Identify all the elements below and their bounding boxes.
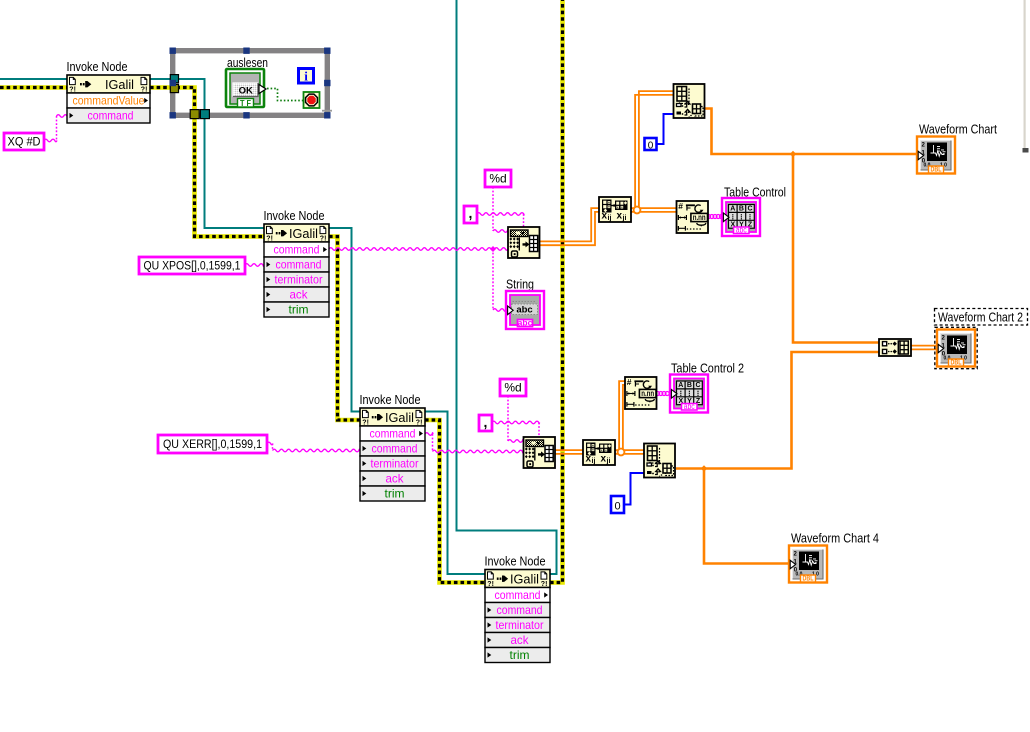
svg-text:0: 0 (614, 501, 620, 513)
Waveform Chart 2 indicator icon (selected) (935, 309, 1028, 326)
svg-text:trim: trim (510, 648, 530, 662)
svg-text:ack: ack (386, 472, 405, 486)
wire: orange 1D array Index Array 2 to Build Array input 2 (676, 352, 879, 469)
svg-text:IGalil: IGalil (105, 78, 134, 92)
svg-text:DBL: DBL (951, 360, 963, 367)
wire: pink %d format string 1 down into Spreadsheet String To Array 1 (492, 187, 494, 231)
svg-text:Waveform Chart 2: Waveform Chart 2 (938, 310, 1023, 325)
string constant QU XERR[],0,1599,1 (158, 435, 267, 453)
Number To Fractional String 1 (677, 201, 709, 233)
Build Array (879, 339, 911, 356)
svg-text:command: command (274, 243, 320, 257)
svg-text:IGalil: IGalil (289, 227, 318, 241)
svg-text:abc: abc (518, 318, 533, 328)
svg-text:QU XERR[],0,1599,1: QU XERR[],0,1599,1 (163, 439, 262, 451)
svg-text:F: F (634, 379, 639, 389)
tunnel: error tunnel on while loop left border (170, 84, 178, 92)
svg-text:Invoke Node: Invoke Node (360, 392, 421, 407)
wire: pink comma delimiter 2 into Spreadsheet String To Array 2 top (492, 421, 539, 424)
wire: orange 2D array junction 2 up to Number To Fractional String 2 (619, 381, 625, 452)
svg-text:ack: ack (290, 288, 309, 302)
Index Array 1 (674, 84, 705, 119)
svg-text:i: i (304, 69, 308, 84)
coast square on while loop left border (170, 80, 176, 86)
svg-text:DBL: DBL (931, 167, 943, 174)
while loop frame (170, 48, 331, 119)
svg-text:trim: trim (385, 487, 405, 501)
svg-text:Invoke Node: Invoke Node (485, 554, 546, 569)
svg-text:A: A (678, 382, 683, 389)
string constant QU XPOS[],0,1599,1 (139, 257, 245, 274)
wire: orange 1D array Index Array 1 to Waveform Chart (705, 109, 918, 155)
tunnel: teal refnum tunnel on while loop bottom border (200, 110, 209, 119)
wire: pink string-array coil Number To Fractional String 1 to Table Control (707, 215, 711, 219)
junction circle: 2D array junction at Transpose 1 output (634, 207, 641, 214)
wire: pink comma delimiter 1 into Spreadsheet String To Array 1 top (477, 213, 524, 216)
junction: pink string wire junction (490, 246, 496, 252)
wire: blue int32 0 constant to Index Array 2 (624, 473, 644, 505)
svg-text:abc: abc (516, 305, 532, 316)
svg-text:,: , (484, 414, 488, 430)
wire: pink string Invoke Node 3 command output to Spreadsheet String To Array 2 (425, 433, 433, 436)
wire: blue int32 0 constant to Index Array 1 (656, 114, 673, 144)
wire: error cluster return from Invoke Node 4 up to top edge (550, 0, 563, 583)
tunnel: error tunnel on while loop bottom border (190, 110, 199, 119)
svg-text:ij: ij (608, 215, 612, 222)
wire: orange 2D array junction 1 up to Index Array 1 (635, 95, 673, 210)
svg-text:B: B (687, 382, 692, 389)
Transpose 2D Array 2 (583, 440, 615, 465)
wire: pink string QU XPOS constant to Invoke Node 2 command (245, 264, 264, 267)
svg-text:String: String (506, 277, 534, 292)
loop condition stop terminal (304, 92, 320, 108)
svg-text:IGalil: IGalil (510, 572, 539, 586)
svg-text:ji: ji (606, 458, 611, 465)
svg-text:A: A (730, 206, 735, 213)
tunnel: teal refnum tunnel on while loop left border (170, 75, 178, 83)
Invoke Node 3 (IGalil command QU XERR) (360, 392, 426, 501)
svg-text:command: command (372, 442, 418, 456)
OK button boolean control terminal (226, 69, 266, 108)
svg-text:0: 0 (648, 141, 654, 152)
wire: orange 1D array branch down to Waveform Chart 4 (704, 469, 789, 564)
wire: orange 2D array Spreadsheet 2 to Transpose 2 (555, 449, 583, 451)
Invoke Node 1 (IGalil commandValue/command) (67, 59, 151, 123)
svg-text:QU XPOS[],0,1599,1: QU XPOS[],0,1599,1 (144, 261, 241, 273)
Index Array 2 (644, 444, 675, 479)
svg-text:command: command (88, 109, 134, 123)
svg-text:abc: abc (684, 402, 695, 411)
svg-text:,: , (688, 110, 690, 119)
Invoke Node 2 (IGalil command QU XPOS) (264, 208, 330, 317)
junction: orange wire junction lower (701, 465, 707, 471)
gray mark under loop bottom right (322, 110, 332, 112)
delimiter comma constant upper (464, 205, 477, 223)
svg-text:%d: %d (504, 381, 521, 395)
wire: pink string QU XERR constant to Invoke Node 3 command (267, 442, 273, 445)
svg-text:command: command (495, 588, 541, 602)
wire: green boolean dotted OK button to stop terminal (267, 89, 303, 101)
wire: pink string Invoke Node 2 command output to Spreadsheet String To Array 1 (329, 248, 508, 251)
wire: teal refnum from left edge into Invoke Node 1 (0, 78, 67, 80)
delimiter comma constant lower (479, 414, 492, 431)
svg-text:C: C (695, 382, 700, 389)
svg-text:ack: ack (511, 633, 530, 647)
svg-text:Invoke Node: Invoke Node (67, 59, 128, 74)
svg-text:terminator: terminator (496, 618, 544, 632)
wire: orange 2D array Build Array to Waveform Chart 2 (911, 345, 939, 347)
svg-text:#: # (678, 201, 683, 211)
wire: orange 2D array Transpose 1 to junction to Number To Fractional String 1 (631, 207, 676, 209)
numeric constant 0 upper (645, 138, 657, 152)
svg-text:Invoke Node: Invoke Node (264, 208, 325, 223)
wire: teal refnum Invoke Node 2 to Invoke Node 3 (329, 228, 360, 412)
svg-text:abc: abc (736, 226, 747, 235)
svg-text:terminator: terminator (275, 273, 323, 287)
wire: orange 1D array branch down to Build Array input 1 (793, 154, 879, 343)
svg-text:DBL: DBL (803, 576, 815, 583)
svg-text:ji: ji (622, 215, 627, 222)
format string constant %d lower (500, 379, 526, 396)
wire: error cluster Invoke Node 1 through while loop down to Invoke Node 2 (150, 88, 264, 237)
svg-text:C: C (747, 206, 752, 213)
wire: pink %d format string 2 down into Spreadsheet String To Array 2 (507, 396, 509, 441)
svg-text:Table Control 2: Table Control 2 (671, 361, 744, 376)
numeric constant 0 lower (611, 496, 624, 513)
Number To Fractional String 2 (625, 377, 657, 409)
wire: teal refnum return from Invoke Node 4 up to top edge (457, 0, 557, 574)
format string constant %d upper (485, 170, 511, 187)
svg-text:terminator: terminator (371, 457, 419, 471)
wire: teal refnum Invoke Node 1 through while loop down to Invoke Node 2 (150, 79, 264, 228)
svg-text:commandValue: commandValue (73, 94, 145, 108)
wire: pink string XQ #D constant to Invoke Node 1 command (44, 139, 57, 142)
wire: orange 2D array Transpose 2 to junction to Index Array 2 (615, 449, 645, 451)
iteration terminal i (299, 69, 314, 84)
wire: teal refnum Invoke Node 3 to Invoke Node 4 (425, 412, 485, 575)
svg-text:%d: %d (489, 172, 506, 186)
scrollbar edge artifact top right (1024, 0, 1026, 150)
svg-text:ij: ij (592, 458, 596, 465)
junction: orange wire junction upper (790, 151, 796, 157)
wire: orange 2D array Spreadsheet 1 to Transpose 1 (540, 208, 600, 241)
svg-text:command: command (497, 603, 543, 617)
svg-text:B: B (739, 206, 744, 213)
svg-text:Waveform Chart: Waveform Chart (919, 122, 997, 137)
svg-text:,: , (469, 205, 473, 221)
svg-text:IGalil: IGalil (385, 411, 414, 425)
svg-text:OK: OK (239, 86, 253, 97)
svg-text:command: command (370, 427, 416, 441)
wire: pink string branch down to String indicator (492, 249, 494, 310)
Transpose 2D Array 1 (599, 197, 631, 222)
Invoke Node 4 (IGalil command) (485, 554, 551, 663)
svg-text:T F: T F (240, 99, 251, 108)
svg-text:,: , (659, 470, 661, 479)
Spreadsheet String To Array 2 (524, 437, 556, 468)
svg-text:XQ #D: XQ #D (8, 135, 41, 149)
svg-text:#: # (627, 377, 632, 387)
string constant XQ #D (4, 133, 44, 150)
svg-text:F: F (686, 203, 691, 213)
wire: error cluster Invoke Node 2 to Invoke Node 3 (329, 237, 360, 421)
wire: error cluster Invoke Node 3 to Invoke Node 4 (425, 420, 485, 583)
Spreadsheet String To Array 1 (508, 227, 540, 258)
svg-text:Waveform Chart 4: Waveform Chart 4 (791, 531, 879, 546)
junction circle: 2D array junction at Transpose 2 output (618, 449, 625, 456)
svg-text:trim: trim (289, 303, 309, 317)
svg-text:n.nn: n.nn (641, 389, 654, 398)
svg-text:n.nn: n.nn (693, 213, 706, 222)
wire: error cluster from left edge into Invoke Node 1 (0, 85, 67, 90)
wire: pink string-array coil Number To Fractional String 2 to Table Control 2 (656, 392, 660, 396)
svg-text:command: command (276, 258, 322, 272)
